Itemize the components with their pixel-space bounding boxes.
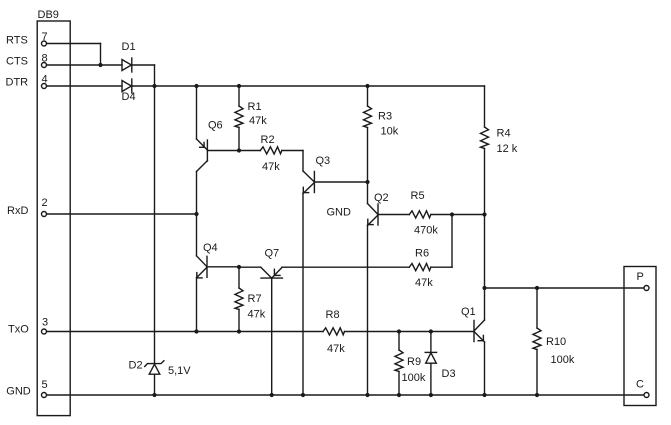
transistor Q2 NPN [368,182,389,226]
junction Q3 emitter at ground [301,393,305,397]
junction rail to R3 [365,84,369,88]
svg-text:R2: R2 [261,134,275,146]
junction R10 bottom at ground [535,393,539,397]
wire Q7 base down to ground rail [271,278,273,395]
junction R7 bottom at TxO [237,329,241,333]
wire D1 cathode to DTR rail [131,65,154,86]
svg-text:Q1: Q1 [461,306,476,318]
svg-text:47k: 47k [415,277,433,289]
junction Q1 emitter at ground [482,393,486,397]
wire Q3 base to R3 node [314,181,367,183]
resistor R5 470k [378,190,485,237]
wire supply rail (DTR/CTS) to R4 corner [131,85,484,87]
svg-text:2: 2 [42,197,48,209]
svg-text:TxO: TxO [8,324,29,336]
svg-text:D1: D1 [122,41,136,53]
junction R8 line / D3 top [429,329,433,333]
terminal P [637,271,650,291]
wire Q7 emitter to R6 [282,266,409,268]
svg-text:D2: D2 [129,360,143,372]
wire Q6 base to R1/R2 node [207,150,239,152]
svg-text:47k: 47k [248,309,266,321]
svg-text:R10: R10 [546,336,566,348]
svg-text:R3: R3 [378,111,392,123]
wire rail down to zener D2 [154,86,156,364]
resistor R4 12k [481,86,518,288]
svg-text:12 k: 12 k [497,143,518,155]
svg-text:47k: 47k [327,343,345,355]
svg-text:D3: D3 [442,368,456,380]
pin 5 GND [6,379,47,398]
transistor Q4 NPN [197,242,218,278]
junction Q4 emitter at TxO [194,329,198,333]
label GND net [327,207,352,219]
resistor R6 47k [409,215,452,290]
junction R8 line / R9 top [397,329,401,333]
pin 2 RxD [7,197,48,217]
svg-text:R7: R7 [248,293,262,305]
svg-text:C: C [636,379,644,391]
resistor R1 47k [235,86,267,151]
resistor R3 10k [364,86,399,182]
pin 7 RTS [6,31,48,47]
svg-text:CTS: CTS [6,56,28,68]
diode D4 [122,79,136,103]
wire Q1 emitter down to ground rail [484,342,486,395]
wire DTR pin4 to D4 anode [47,85,123,87]
svg-text:D4: D4 [122,91,136,103]
svg-text:47k: 47k [249,115,267,127]
pin 8 CTS [6,53,48,68]
pin 4 DTR [6,74,48,89]
terminal C [636,379,649,398]
junction rail to Q6 emitter [194,84,198,88]
transistor Q1 NPN [461,288,485,342]
wire Q6 collector down to RxD node [196,172,198,215]
diode D3 [425,332,455,396]
svg-text:Q7: Q7 [265,248,280,260]
wire Q4 emitter down to TxO line [196,278,198,332]
svg-text:100k: 100k [402,372,426,384]
wire Q3 emitter down to ground rail [302,194,304,396]
resistor R9 100k [395,332,426,396]
svg-text:R1: R1 [248,101,262,113]
junction Q4 base / R7 top [237,265,241,269]
wire R8 to Q1 base [345,331,475,333]
junction D1/D4 outputs [152,84,156,88]
junction R9 bottom at ground [397,393,401,397]
svg-text:R4: R4 [497,128,511,140]
svg-text:R5: R5 [411,190,425,202]
svg-text:GND: GND [6,386,31,398]
resistor R8 47k [323,309,345,355]
pin 3 TxO [8,317,48,336]
svg-text:Q3: Q3 [316,155,331,167]
wire RTS pin7 to CTS net [47,44,101,66]
svg-text:100k: 100k [551,354,575,366]
svg-text:R8: R8 [326,309,340,321]
wire R2 down to Q3 collector [302,151,304,172]
svg-text:5: 5 [42,379,48,391]
wire RxD pin2 to junction [47,213,197,215]
svg-text:DB9: DB9 [38,9,59,21]
svg-text:Q2: Q2 [374,192,389,204]
resistor R7 47k [235,267,266,332]
junction D2 to ground rail [152,393,156,397]
svg-text:R6: R6 [415,248,429,260]
wire Q4 base to R7 node [207,266,239,268]
junction R10 top [535,286,539,290]
svg-text:470k: 470k [414,225,438,237]
svg-text:P: P [637,271,644,283]
transistor Q6 PNP [197,86,223,172]
connector J1 DB9 body [37,21,70,416]
zener diode D2 5,1V [129,360,192,396]
junction R3 / Q3 base / Q2 collector [365,180,369,184]
junction RxD to Q6/Q4 line [194,212,198,216]
label DB9 [38,9,59,21]
wire ground rail pin5 to connector C [47,394,645,396]
svg-text:3: 3 [42,317,48,329]
junction Q2 emitter at ground [365,393,369,397]
svg-text:Q6: Q6 [208,120,223,132]
connector J2 body [624,267,656,406]
wire TxO pin3 to R8 [47,331,324,333]
wire Q2 emitter down to ground rail [367,226,369,396]
svg-text:RxD: RxD [7,205,28,217]
junction R5/R6 node [450,212,454,216]
junction R1/R2/Q6 base [237,148,241,152]
resistor R10 100k [533,288,575,395]
junction RTS-CTS [98,63,102,67]
transistor Q3 NPN [303,155,330,194]
svg-text:GND: GND [327,207,352,219]
junction rail to R1 [237,84,241,88]
svg-text:DTR: DTR [6,77,29,89]
resistor R2 47k [239,134,303,173]
junction R4 / Q1 collector / output node [482,286,486,290]
wire CTS pin8 to D1 anode [47,64,123,66]
transistor Q7 PNP [239,248,282,279]
junction D3 bottom at ground [429,393,433,397]
svg-text:5,1V: 5,1V [168,365,191,377]
junction Q7 base at ground [270,393,274,397]
diode D1 [122,41,136,72]
wire output node to connector P [485,287,645,289]
wire junction down to Q4 collector [196,214,198,256]
svg-text:Q4: Q4 [203,242,218,254]
svg-text:47k: 47k [262,161,280,173]
svg-text:RTS: RTS [6,35,28,47]
svg-text:10k: 10k [381,126,399,138]
junction R5 to R4 line [482,212,486,216]
svg-text:R9: R9 [407,356,421,368]
